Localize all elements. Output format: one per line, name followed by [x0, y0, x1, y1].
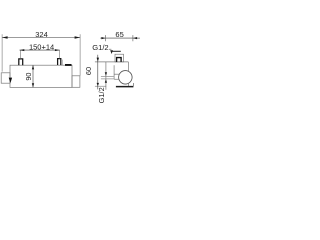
svg-text:60: 60 [84, 67, 93, 75]
svg-text:324: 324 [35, 30, 48, 39]
svg-text:G1/2: G1/2 [92, 43, 108, 52]
svg-text:90: 90 [24, 73, 33, 81]
svg-text:65: 65 [115, 30, 123, 39]
svg-text:150+14: 150+14 [29, 43, 54, 52]
svg-text:G1/2: G1/2 [97, 87, 106, 103]
